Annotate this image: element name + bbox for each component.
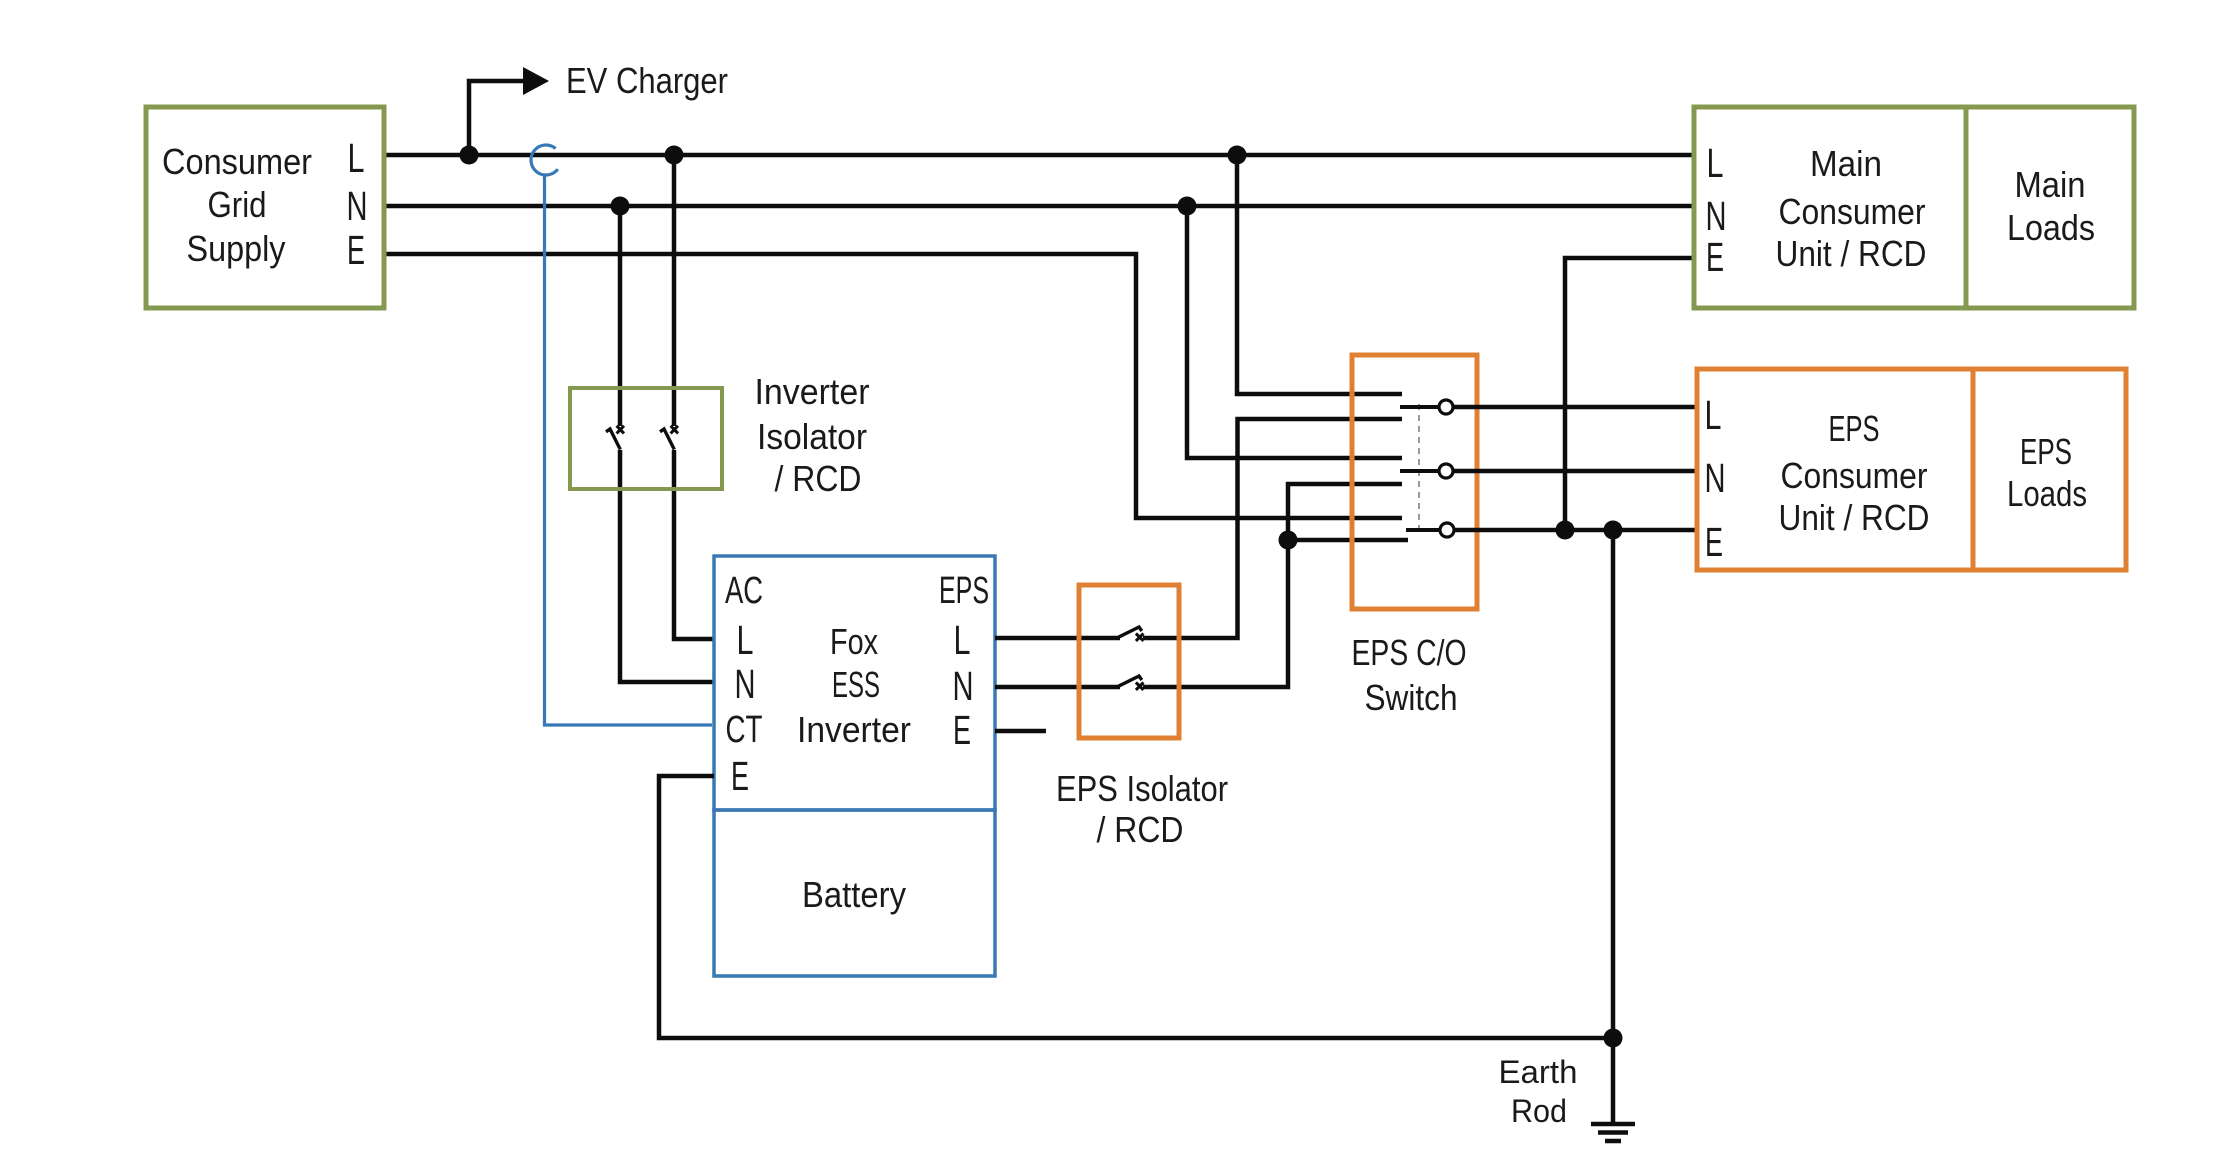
label EPS Isolator / RCD (1056, 768, 1228, 850)
wire grid N feed to C/O pole2 upper (1187, 206, 1402, 458)
wire C/O pole2 output to EPS CU N (1453, 469, 1697, 474)
svg-text:L: L (1705, 392, 1722, 438)
svg-text:Fox: Fox (830, 621, 878, 662)
svg-text:Switch: Switch (1365, 677, 1458, 718)
consumer grid supply box (146, 107, 384, 308)
svg-text:Main: Main (1810, 143, 1882, 184)
wire earth rod drop (1611, 530, 1616, 1124)
wire N from isolator to inverter N (620, 450, 714, 682)
switch blade L pole of EPS isolator (1119, 627, 1144, 641)
svg-text:Inverter: Inverter (797, 709, 911, 750)
node junction dot L at C/O feed (1228, 146, 1247, 165)
svg-text:EPS Isolator: EPS Isolator (1056, 768, 1228, 809)
wire C/O pole1 output to EPS CU L (1453, 405, 1697, 410)
wire C/O pole3 output to EPS CU E (1454, 528, 1697, 533)
wire L from isolator to inverter L (674, 450, 714, 639)
svg-text:N: N (953, 663, 974, 709)
wire EPS L out of inverter (995, 636, 1120, 641)
svg-text:Inverter: Inverter (755, 371, 870, 412)
svg-text:Unit / RCD: Unit / RCD (1779, 497, 1930, 538)
svg-text:Grid: Grid (208, 184, 267, 225)
wire grid L feed to C/O pole1 upper (1237, 155, 1402, 394)
svg-text:Loads: Loads (2007, 473, 2087, 514)
EPS loads box label (2007, 431, 2087, 514)
node junction dot E at Main CU drop (1556, 521, 1575, 540)
wire N drop to inverter isolator (618, 206, 623, 426)
svg-text:L: L (954, 617, 971, 663)
label Inverter Isolator / RCD (755, 371, 870, 499)
svg-text:EPS C/O: EPS C/O (1352, 632, 1467, 673)
svg-text:Supply: Supply (187, 228, 286, 269)
C/O pole1 common blade and contact circle (1400, 400, 1453, 414)
EPS C/O switch box (1352, 355, 1477, 609)
node junction dot N-E bond (1279, 531, 1298, 550)
switch blade L pole of inverter isolator (660, 426, 678, 450)
wire EPS N from isolator up to C/O pole2 lower (1143, 484, 1402, 687)
svg-text:AC: AC (725, 570, 763, 612)
svg-text:Isolator: Isolator (757, 416, 867, 457)
svg-text:L: L (348, 135, 365, 181)
svg-text:E: E (953, 707, 971, 753)
C/O pole2 common blade and contact circle (1400, 464, 1453, 478)
EV charger arrowhead (523, 67, 549, 95)
svg-text:L: L (1707, 140, 1724, 186)
wire N bus from grid to Main CU (384, 204, 1694, 209)
main consumer unit / RCD box (1694, 107, 2134, 308)
svg-text:L: L (737, 617, 754, 663)
svg-text:E: E (1706, 234, 1724, 280)
wire N-E bond stub to C/O pole3 lower (1288, 538, 1408, 543)
ground symbol earth rod (1591, 1124, 1635, 1141)
svg-text:Consumer: Consumer (162, 141, 312, 182)
svg-text:Battery: Battery (802, 874, 906, 915)
wire CT blue lead to inverter (545, 175, 713, 725)
label Earth Rod (1499, 1054, 1578, 1129)
svg-text:E: E (347, 227, 365, 273)
node junction dot E at earth drop top (1604, 521, 1623, 540)
node junction dot earth bottom run (1604, 1029, 1623, 1048)
wire EV charger tap (469, 81, 523, 155)
svg-text:/ RCD: / RCD (775, 458, 862, 499)
switch blade N pole of inverter isolator (606, 426, 624, 450)
svg-text:EPS: EPS (2020, 431, 2072, 472)
node junction dot N at C/O feed (1178, 197, 1197, 216)
svg-text:Unit / RCD: Unit / RCD (1776, 233, 1927, 274)
label EPS C/O Switch (1352, 632, 1467, 718)
wire EPS E stub (995, 729, 1046, 734)
inverter U1 Fox ESS box (714, 556, 995, 810)
C/O pole3 common blade and contact circle (1406, 523, 1454, 537)
EPS isolator / RCD box (1079, 585, 1179, 738)
svg-text:Earth: Earth (1499, 1054, 1578, 1090)
wire inverter E to earth run (659, 776, 1613, 1038)
svg-text:Rod: Rod (1511, 1093, 1567, 1129)
svg-text:CT: CT (726, 709, 763, 751)
node junction dot L at inverter tap (665, 146, 684, 165)
main loads box label (2007, 164, 2095, 248)
battery box (714, 810, 995, 976)
wire L drop to inverter isolator (672, 155, 677, 426)
svg-text:EPS: EPS (1829, 408, 1880, 449)
svg-text:Consumer: Consumer (1781, 455, 1928, 496)
svg-text:N: N (1705, 455, 1726, 501)
node junction dot L at EV tap (460, 146, 479, 165)
svg-text:Main: Main (2015, 164, 2086, 205)
svg-text:E: E (731, 753, 749, 799)
svg-text:Loads: Loads (2007, 207, 2095, 248)
svg-text:N: N (1706, 193, 1727, 239)
node junction dot N at inverter tap (611, 197, 630, 216)
svg-text:Consumer: Consumer (1779, 191, 1926, 232)
switch blade N pole of EPS isolator (1119, 676, 1144, 690)
wire EPS L from isolator up to C/O pole1 lower (1143, 419, 1402, 638)
wire L bus from grid to Main CU (384, 153, 1694, 158)
dashed linkage of C/O switch (1418, 404, 1420, 534)
svg-text:EPS: EPS (939, 570, 989, 612)
wire EPS N out of inverter (995, 685, 1120, 690)
wire Main CU E drop to EPS E wire (1565, 258, 1694, 530)
CT clamp on L line (blue) (531, 145, 558, 175)
EPS consumer unit / RCD box (1697, 369, 2126, 570)
inverter isolator / RCD box (570, 388, 722, 489)
svg-text:/ RCD: / RCD (1097, 809, 1184, 850)
svg-text:N: N (735, 661, 756, 707)
svg-text:ESS: ESS (832, 664, 880, 705)
svg-text:E: E (1705, 519, 1723, 565)
svg-text:N: N (347, 183, 368, 229)
wire E from grid to corner x1136 (384, 254, 1402, 518)
svg-text:EV Charger: EV Charger (566, 60, 728, 101)
